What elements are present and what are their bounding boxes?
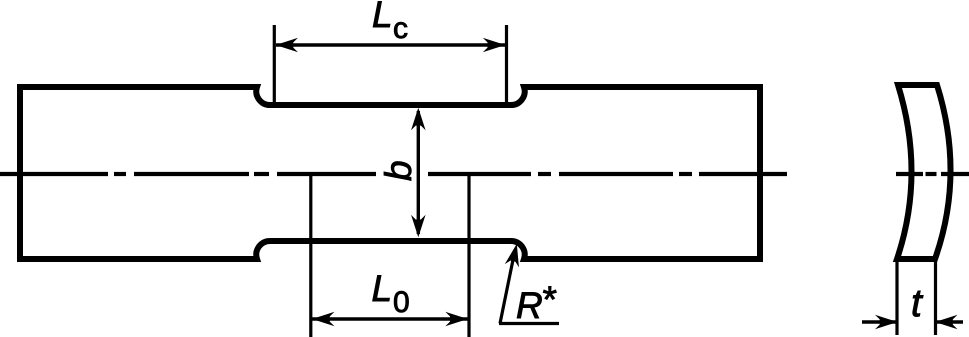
svg-text:0: 0 bbox=[393, 286, 410, 319]
dimension L0 line bbox=[312, 317, 468, 320]
svg-text:L: L bbox=[372, 0, 393, 35]
svg-text:b: b bbox=[378, 160, 419, 181]
leader R* bbox=[500, 250, 515, 324]
cross-section strip bbox=[897, 85, 951, 259]
dimension Lc arrowheads bbox=[276, 38, 299, 53]
centre line (main view) bbox=[0, 172, 787, 176]
specimen outline (dog-bone) bbox=[20, 87, 760, 259]
svg-text:*: * bbox=[541, 279, 557, 320]
centre line (cross-section) bbox=[896, 172, 969, 176]
dimension Lc extension lines bbox=[274, 25, 506, 103]
svg-text:t: t bbox=[911, 282, 924, 325]
dimension t extension lines bbox=[897, 262, 936, 335]
svg-text:L: L bbox=[372, 268, 393, 309]
dimension L0 extension lines bbox=[311, 172, 469, 337]
dimension L0 arrowheads bbox=[312, 312, 335, 327]
svg-text:c: c bbox=[393, 12, 408, 45]
dimension Lc line bbox=[276, 43, 505, 46]
dimension t lines and arrowheads bbox=[862, 320, 896, 323]
svg-text:R: R bbox=[516, 285, 543, 326]
dimension b arrow bbox=[417, 111, 420, 234]
